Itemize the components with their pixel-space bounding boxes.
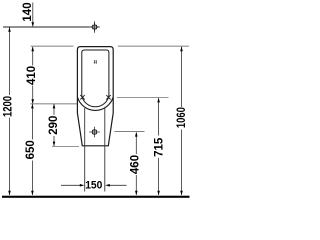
- svg-text:1200: 1200: [3, 96, 15, 117]
- svg-text:150: 150: [85, 179, 102, 191]
- dim 150 bottom: [61, 179, 127, 191]
- dim 1200: [3, 27, 15, 195]
- dim 410: [26, 47, 38, 104]
- extension line drain level right: [114, 131, 144, 133]
- svg-text:650: 650: [25, 140, 37, 159]
- extension line 650 level left: [30, 103, 77, 105]
- svg-text:715: 715: [154, 137, 166, 157]
- svg-text:1060: 1060: [176, 107, 188, 128]
- wall reference line (1200 level): [3, 26, 90, 28]
- extension line bottom level left: [52, 145, 79, 147]
- svg-text:410: 410: [26, 66, 38, 85]
- floor line: [2, 196, 190, 198]
- svg-text:460: 460: [129, 155, 141, 174]
- drain crosshair: [89, 127, 100, 138]
- outlet pipe line right: [104, 108, 106, 192]
- dim 460: [129, 132, 141, 195]
- urinal outer outline: [77, 47, 113, 146]
- fixing point crosshair top: [89, 21, 100, 33]
- dim 290: [48, 104, 60, 146]
- outlet pipe line left: [84, 108, 86, 192]
- urinal inner rim outline: [82, 50, 109, 96]
- dim 140: [22, 2, 34, 26]
- extension line rim level left: [31, 45, 74, 47]
- extension line 715 level right: [117, 97, 169, 99]
- dim 715: [154, 98, 166, 196]
- dim 650: [25, 104, 37, 196]
- spray hole marker: [94, 60, 97, 63]
- svg-text:140: 140: [22, 2, 34, 21]
- bowl inner arc: [82, 96, 109, 107]
- bowl outer arc: [77, 97, 113, 110]
- extension line rim level right: [118, 45, 189, 47]
- side fixing mark left: [80, 95, 84, 99]
- side fixing mark right: [106, 95, 110, 99]
- dim 1060: [176, 47, 188, 196]
- svg-text:290: 290: [48, 116, 60, 135]
